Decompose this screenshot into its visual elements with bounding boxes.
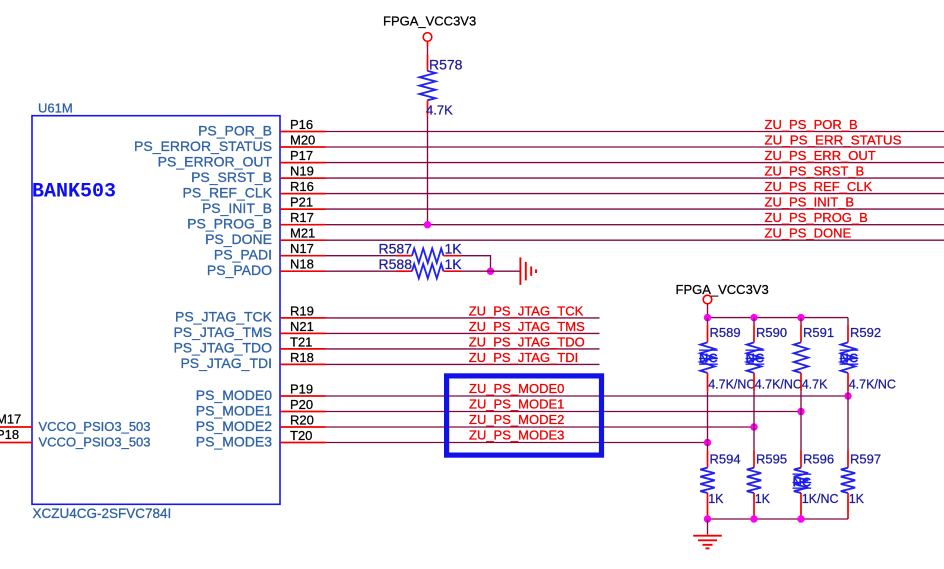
svg-text:R594: R594 — [710, 452, 741, 467]
junction on top rail — [704, 314, 711, 321]
svg-text:4.7K: 4.7K — [802, 378, 828, 392]
wire net ZU_PS_MODE1 — [326, 397, 802, 412]
svg-text:R590: R590 — [756, 325, 787, 340]
svg-text:1K: 1K — [849, 492, 865, 506]
svg-text:P21: P21 — [290, 195, 313, 210]
svg-text:PS_POR_B: PS_POR_B — [198, 122, 272, 138]
svg-text:ZU_PS_JTAG_TCK: ZU_PS_JTAG_TCK — [469, 303, 584, 318]
svg-text:P16: P16 — [290, 117, 313, 132]
junction on top rail — [750, 314, 757, 321]
svg-text:NC: NC — [746, 351, 765, 366]
wire net ZU_PS_JTAG_TMS — [326, 319, 600, 334]
svg-text:1K: 1K — [708, 492, 724, 506]
junction on bottom rail — [750, 515, 757, 522]
wire PS_PADI to R587 — [326, 255, 397, 257]
wire R587 to junction — [461, 256, 491, 272]
svg-text:PS_PADO: PS_PADO — [207, 262, 272, 278]
svg-text:R16: R16 — [290, 179, 314, 194]
svg-text:ZU_PS_JTAG_TDO: ZU_PS_JTAG_TDO — [469, 334, 585, 349]
wire PS_PADO to R588 — [326, 270, 397, 272]
wire net ZU_PS_JTAG_TCK — [326, 303, 600, 318]
resistor R592 4.7K/NC — [840, 318, 896, 392]
svg-text:ZU_PS_JTAG_TDI: ZU_PS_JTAG_TDI — [469, 350, 579, 365]
resistor R578 4.7K — [420, 56, 463, 117]
svg-text:ZU_PS_ERR_OUT: ZU_PS_ERR_OUT — [765, 148, 876, 163]
svg-text:PS_JTAG_TDI: PS_JTAG_TDI — [180, 355, 272, 371]
svg-text:R595: R595 — [756, 452, 787, 467]
pin R17 PS_PROG_B — [187, 210, 325, 231]
wire net ZU_PS_JTAG_TDI — [326, 350, 600, 365]
svg-text:4.7K: 4.7K — [426, 103, 453, 118]
svg-text:ZU_PS_DONE: ZU_PS_DONE — [765, 226, 852, 241]
bottom rail wire — [708, 518, 849, 520]
svg-text:1K/NC: 1K/NC — [802, 492, 839, 506]
svg-text:VCCO_PSIO3_503: VCCO_PSIO3_503 — [39, 434, 151, 449]
resistor R591 4.7K — [794, 318, 834, 392]
svg-text:BANK503: BANK503 — [32, 181, 116, 204]
svg-text:FPGA_VCC3V3: FPGA_VCC3V3 — [383, 14, 476, 29]
svg-text:R589: R589 — [710, 325, 741, 340]
svg-text:N19: N19 — [290, 164, 314, 179]
wire net ZU_PS_REF_CLK — [326, 179, 944, 194]
svg-text:PS_MODE1: PS_MODE1 — [196, 402, 272, 418]
wire net ZU_PS_DONE — [326, 226, 944, 241]
svg-text:PS_REF_CLK: PS_REF_CLK — [183, 184, 273, 200]
pin P17 PS_ERROR_OUT — [158, 148, 326, 169]
svg-text:M17: M17 — [0, 411, 21, 426]
svg-text:PS_INIT_B: PS_INIT_B — [202, 200, 272, 216]
svg-text:R587: R587 — [379, 241, 413, 257]
pin P20 PS_MODE1 — [196, 397, 326, 418]
pin P19 PS_MODE0 — [196, 381, 326, 402]
pin R16 PS_REF_CLK — [183, 179, 326, 200]
resistor R589 4.7K/NC — [699, 318, 755, 392]
wire net ZU_PS_JTAG_TDO — [326, 334, 600, 349]
svg-text:PS_MODE3: PS_MODE3 — [196, 433, 272, 449]
pin R18 PS_JTAG_TDI — [180, 350, 325, 371]
svg-text:ZU_PS_SRST_B: ZU_PS_SRST_B — [765, 164, 865, 179]
svg-text:NC: NC — [793, 475, 812, 490]
svg-text:PS_JTAG_TMS: PS_JTAG_TMS — [173, 324, 272, 340]
wire R578 to PS_PROG_B — [427, 116, 429, 225]
svg-text:R596: R596 — [803, 452, 834, 467]
junction ZU_PS_MODE0 to resistor column — [844, 392, 851, 399]
svg-text:P20: P20 — [290, 397, 313, 412]
junction R587/R588 — [487, 268, 494, 275]
svg-text:P18: P18 — [0, 427, 19, 442]
svg-text:R18: R18 — [290, 350, 314, 365]
svg-text:PS_PROG_B: PS_PROG_B — [187, 216, 272, 232]
svg-text:PS_ERROR_STATUS: PS_ERROR_STATUS — [134, 138, 272, 154]
pin R20 PS_MODE2 — [196, 412, 326, 433]
wire net ZU_PS_MODE3 — [326, 428, 708, 443]
pin R19 PS_JTAG_TCK — [175, 303, 326, 324]
wire column R592 down — [847, 391, 849, 450]
wire VCC to R578 — [427, 42, 429, 72]
wire net ZU_PS_MODE0 — [326, 381, 849, 396]
svg-text:ZU_PS_REF_CLK: ZU_PS_REF_CLK — [765, 179, 873, 194]
wire VCC circle to top rail — [707, 304, 709, 318]
svg-text:N21: N21 — [290, 319, 314, 334]
pin M17 VCCO_PSIO3_503 — [0, 411, 151, 434]
power symbol FPGA_VCC3V3 (top) — [383, 14, 476, 42]
svg-text:1K: 1K — [445, 256, 463, 272]
wire column R590 down — [753, 391, 755, 450]
pin P18 VCCO_PSIO3_503 — [0, 427, 151, 450]
svg-text:R592: R592 — [850, 325, 881, 340]
junction on bottom rail — [704, 515, 711, 522]
ground (bottom) — [693, 519, 722, 548]
svg-text:M20: M20 — [290, 132, 315, 147]
svg-text:ZU_PS_MODE0: ZU_PS_MODE0 — [469, 381, 564, 396]
svg-text:U61M: U61M — [38, 101, 73, 116]
svg-text:R597: R597 — [850, 452, 881, 467]
svg-text:ZU_PS_PROG_B: ZU_PS_PROG_B — [765, 210, 868, 225]
svg-text:ZU_PS_MODE1: ZU_PS_MODE1 — [469, 397, 564, 412]
junction ZU_PS_MODE3 to resistor column — [704, 439, 711, 446]
svg-text:VCCO_PSIO3_503: VCCO_PSIO3_503 — [39, 419, 151, 434]
junction on PS_PROG_B — [424, 221, 431, 228]
svg-text:FPGA_VCC3V3: FPGA_VCC3V3 — [676, 282, 769, 297]
pin M21 PS_DONE — [205, 226, 325, 247]
bank label BANK503 — [32, 181, 116, 204]
top rail wire — [708, 317, 849, 319]
svg-text:4.7K/NC: 4.7K/NC — [849, 378, 896, 392]
junction ZU_PS_MODE2 to resistor column — [750, 423, 757, 430]
svg-text:T21: T21 — [290, 334, 312, 349]
wire net ZU_PS_POR_B — [326, 117, 944, 132]
svg-text:N17: N17 — [290, 241, 314, 256]
svg-text:ZU_PS_ERR_STATUS: ZU_PS_ERR_STATUS — [765, 132, 902, 147]
wire net ZU_PS_SRST_B — [326, 164, 944, 179]
pin N19 PS_SRST_B — [191, 164, 325, 185]
svg-text:XCZU4CG-2SFVC784I: XCZU4CG-2SFVC784I — [33, 506, 172, 521]
svg-text:R588: R588 — [379, 256, 413, 272]
resistor R594 1K — [700, 451, 740, 520]
svg-text:PS_MODE2: PS_MODE2 — [196, 418, 272, 434]
resistor R587 1K — [379, 241, 463, 263]
part value XCZU4CG-2SFVC784I — [33, 506, 172, 521]
svg-text:PS_JTAG_TCK: PS_JTAG_TCK — [175, 309, 273, 325]
svg-text:1K: 1K — [445, 241, 463, 257]
pin M20 PS_ERROR_STATUS — [134, 132, 325, 153]
power symbol FPGA_VCC3V3 (right) — [676, 282, 769, 304]
resistor R595 1K — [747, 451, 787, 520]
svg-text:T20: T20 — [290, 428, 312, 443]
svg-text:R591: R591 — [803, 325, 834, 340]
wire net ZU_PS_ERR_OUT — [326, 148, 944, 163]
highlight box around ZU_PS_MODE nets — [447, 376, 602, 455]
junction on bottom rail — [797, 515, 804, 522]
wire net ZU_PS_ERR_STATUS — [326, 132, 944, 147]
pin P21 PS_INIT_B — [202, 195, 326, 216]
pin N21 PS_JTAG_TMS — [173, 319, 325, 340]
svg-text:ZU_PS_MODE2: ZU_PS_MODE2 — [469, 412, 564, 427]
pin P16 PS_POR_B — [198, 117, 325, 138]
pin T20 PS_MODE3 — [196, 428, 326, 449]
wire net ZU_PS_PROG_B — [326, 210, 944, 225]
resistor R590 4.7K/NC — [746, 318, 802, 392]
pin N18 PS_PADO — [207, 257, 326, 278]
wire net ZU_PS_MODE2 — [326, 412, 755, 427]
svg-text:ZU_PS_JTAG_TMS: ZU_PS_JTAG_TMS — [469, 319, 585, 334]
resistor R588 1K — [379, 256, 463, 278]
svg-text:R20: R20 — [290, 412, 314, 427]
svg-text:ZU_PS_MODE3: ZU_PS_MODE3 — [469, 428, 564, 443]
svg-text:M21: M21 — [290, 226, 315, 241]
svg-text:PS_JTAG_TDO: PS_JTAG_TDO — [173, 340, 272, 356]
wire net ZU_PS_INIT_B — [326, 195, 944, 210]
wire column R591 down — [800, 391, 802, 450]
svg-text:R578: R578 — [429, 56, 463, 72]
svg-text:1K: 1K — [755, 492, 771, 506]
svg-text:R19: R19 — [290, 303, 314, 318]
svg-text:4.7K/NC: 4.7K/NC — [708, 378, 755, 392]
svg-text:ZU_PS_POR_B: ZU_PS_POR_B — [765, 117, 858, 132]
svg-text:4.7K/NC: 4.7K/NC — [755, 378, 802, 392]
svg-text:PS_DONE: PS_DONE — [205, 231, 272, 247]
svg-text:NC: NC — [840, 351, 859, 366]
pin T21 PS_JTAG_TDO — [173, 334, 325, 355]
IC U61M (BANK503) body — [32, 116, 280, 505]
svg-text:NC: NC — [699, 351, 718, 366]
wire junction to ground — [461, 270, 520, 272]
svg-text:PS_PADI: PS_PADI — [214, 247, 272, 263]
svg-text:PS_MODE0: PS_MODE0 — [196, 387, 272, 403]
pin N17 PS_PADI — [214, 241, 326, 262]
svg-text:N18: N18 — [290, 257, 314, 272]
svg-text:P19: P19 — [290, 381, 313, 396]
junction on top rail — [797, 314, 804, 321]
svg-text:PS_SRST_B: PS_SRST_B — [191, 169, 272, 185]
resistor R596 1K/NC — [793, 451, 839, 520]
svg-text:R17: R17 — [290, 210, 314, 225]
wire column R589 down — [707, 391, 709, 450]
ground (right of R588) — [520, 257, 536, 285]
svg-text:ZU_PS_INIT_B: ZU_PS_INIT_B — [765, 195, 855, 210]
svg-text:P17: P17 — [290, 148, 313, 163]
resistor R597 1K — [841, 451, 881, 520]
svg-text:PS_ERROR_OUT: PS_ERROR_OUT — [158, 153, 273, 169]
reference designator U61M — [38, 101, 73, 116]
junction ZU_PS_MODE1 to resistor column — [797, 408, 804, 415]
